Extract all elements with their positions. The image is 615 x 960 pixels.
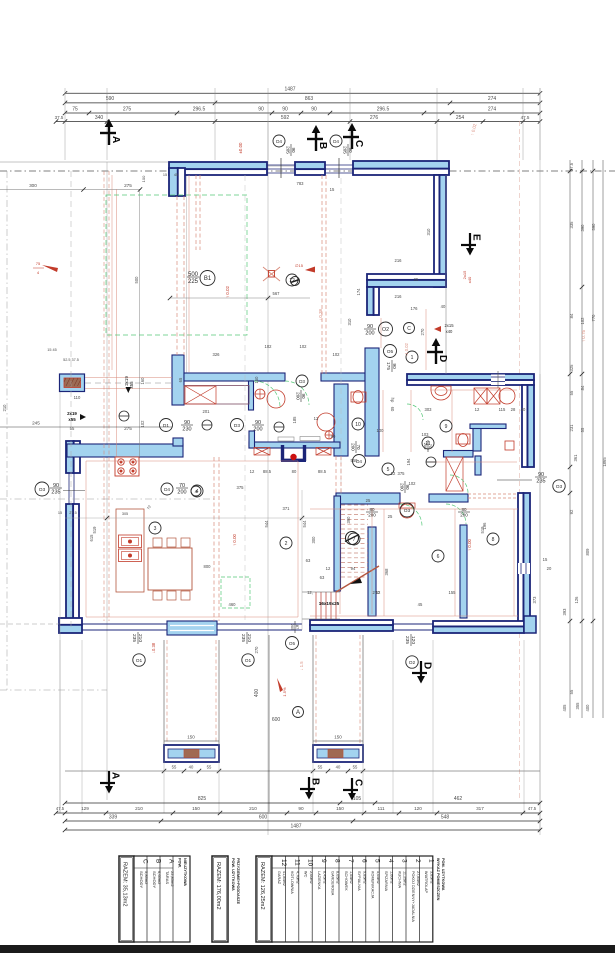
wall top-A left stub	[169, 168, 178, 196]
svg-text:84: 84	[569, 313, 574, 318]
svg-text:SCHODY: SCHODY	[152, 871, 157, 888]
door O3 bedroom circle	[400, 503, 414, 517]
threshold stripe 2	[170, 630, 214, 632]
svg-text:80: 80	[292, 469, 297, 474]
svg-text:200: 200	[399, 483, 404, 491]
svg-text:∅15: ∅15	[295, 263, 304, 268]
svg-text:6: 6	[437, 554, 440, 560]
svg-text:90: 90	[282, 106, 288, 112]
svg-text:544: 544	[302, 520, 307, 528]
svg-text:25: 25	[388, 514, 393, 519]
svg-text:9: 9	[445, 424, 448, 430]
svg-text:KOMUNIKACJA: KOMUNIKACJA	[371, 871, 375, 899]
svg-text:100: 100	[377, 428, 385, 433]
svg-text:KUCHNIA: KUCHNIA	[397, 871, 401, 889]
svg-text:12: 12	[391, 471, 396, 476]
svg-text:16x19x25: 16x19x25	[319, 601, 340, 606]
svg-text:63: 63	[320, 575, 325, 580]
svg-text:C: C	[142, 859, 149, 864]
svg-text:519: 519	[92, 526, 97, 534]
svg-text:40: 40	[521, 407, 526, 412]
svg-text:102: 102	[333, 352, 341, 357]
svg-text:↑ 0.75: ↑ 0.75	[581, 329, 586, 342]
beam C circle	[404, 323, 415, 334]
svg-text:90: 90	[348, 147, 353, 153]
svg-text:176: 176	[411, 306, 419, 311]
svg-text:809: 809	[585, 548, 590, 556]
green door arcs	[285, 381, 309, 405]
svg-text:C: C	[407, 326, 411, 332]
wall bottom right E6	[433, 626, 524, 633]
door O3 left circle	[35, 482, 49, 496]
svg-text:90: 90	[311, 106, 317, 112]
svg-text:52.5 37.5: 52.5 37.5	[63, 358, 79, 362]
grid line y162	[0, 161, 170, 163]
wall bath divider I8	[473, 424, 481, 451]
wall bedroom right E5	[523, 493, 530, 629]
svg-text:120: 120	[414, 806, 422, 811]
svg-text:A: A	[296, 710, 300, 716]
svg-text:225: 225	[188, 279, 199, 285]
vent rects above fireplace wall	[278, 437, 294, 441]
svg-text:40: 40	[441, 304, 446, 309]
svg-text:28: 28	[511, 407, 516, 412]
svg-text:235: 235	[51, 490, 60, 496]
wall interior I2	[184, 373, 285, 381]
window gap E5 right wall	[518, 563, 530, 574]
table razem-3 box	[256, 856, 272, 942]
stairs circle symbol	[345, 532, 359, 545]
svg-text:5: 5	[374, 859, 381, 863]
kitchen sink target	[255, 389, 265, 399]
left outer extension	[59, 389, 61, 633]
svg-text:25: 25	[414, 277, 419, 282]
svg-text:235: 235	[131, 634, 137, 642]
toilet bath	[456, 434, 470, 444]
svg-text:hp: hp	[390, 398, 395, 403]
svg-text:305: 305	[122, 512, 128, 516]
axis line y171 dash-dot	[0, 170, 615, 172]
svg-text:361: 361	[573, 454, 578, 462]
svg-text:12,: 12,	[307, 590, 313, 595]
svg-text:2x19: 2x19	[67, 411, 77, 416]
toilet wc	[351, 392, 366, 402]
svg-text:A: A	[110, 772, 121, 779]
door D4c circle	[353, 455, 366, 468]
label 90/235 left	[50, 483, 62, 496]
svg-text:200: 200	[368, 513, 376, 518]
threshold stripe 1	[170, 625, 214, 627]
svg-text:63: 63	[306, 558, 311, 563]
svg-text:55: 55	[70, 426, 75, 431]
svg-text:NIEUZYTKOWA: NIEUZYTKOWA	[183, 858, 187, 886]
red dashed terrace left	[213, 457, 215, 621]
svg-text:GARDEROBA: GARDEROBA	[330, 871, 334, 896]
green dashed rect living	[106, 195, 247, 335]
svg-text:235: 235	[536, 479, 545, 485]
svg-text:326: 326	[213, 352, 221, 357]
svg-text:600: 600	[272, 717, 281, 723]
wall right wing E4	[527, 385, 534, 467]
section mark A bottom	[100, 771, 121, 794]
svg-text:RAZEM: 35,13m2: RAZEM: 35,13m2	[122, 862, 128, 906]
svg-text:303: 303	[425, 407, 433, 412]
wall garage bottom stub E10	[59, 625, 82, 633]
svg-text:SCHODY: SCHODY	[139, 871, 144, 888]
svg-text:5: 5	[387, 467, 390, 473]
svg-text:400: 400	[585, 704, 590, 712]
svg-text:65: 65	[178, 377, 183, 382]
wall wc right I6	[334, 384, 348, 456]
svg-text:O3: O3	[39, 487, 46, 493]
svg-text:160: 160	[140, 377, 145, 385]
svg-text:90: 90	[291, 147, 296, 153]
red slope arrow left	[42, 265, 58, 272]
svg-text:615: 615	[89, 534, 94, 542]
svg-text:45: 45	[174, 173, 178, 177]
dining table	[148, 548, 192, 590]
stove	[115, 457, 139, 476]
beam B1 circle	[200, 271, 215, 286]
svg-text:11: 11	[425, 441, 430, 447]
section mark E right	[461, 233, 482, 256]
vent X left	[254, 448, 270, 456]
svg-text:317: 317	[476, 806, 484, 811]
room number circles	[286, 274, 298, 286]
svg-text:1: 1	[411, 355, 414, 361]
svg-text:3: 3	[154, 526, 157, 532]
svg-text:↑ 0.00: ↑ 0.00	[467, 538, 472, 551]
section mark B bottom	[300, 777, 321, 800]
svg-text:RAZEM: 176,00m2: RAZEM: 176,00m2	[215, 862, 221, 910]
wall stub up E11b	[173, 438, 183, 446]
svg-text:SPIZARNIA: SPIZARNIA	[384, 871, 388, 892]
svg-text:216: 216	[395, 294, 403, 299]
svg-text:216: 216	[395, 258, 403, 263]
svg-text:40: 40	[189, 765, 194, 770]
svg-text:88.5: 88.5	[263, 469, 272, 474]
pale red offset lines	[310, 508, 518, 510]
svg-text:1.5%: 1.5%	[282, 687, 287, 697]
svg-text:O3: O3	[556, 484, 563, 490]
extension lines	[64, 88, 66, 160]
red band from window	[85, 377, 172, 379]
svg-text:185: 185	[292, 416, 297, 424]
svg-text:3: 3	[401, 859, 408, 863]
svg-text:275: 275	[124, 183, 132, 188]
svg-text:C: C	[353, 779, 364, 786]
svg-text:12: 12	[376, 590, 381, 595]
svg-text:201: 201	[203, 409, 211, 414]
svg-text:O5: O5	[289, 641, 296, 646]
svg-text:231: 231	[569, 424, 574, 432]
svg-text:4: 4	[387, 859, 394, 863]
svg-text:20: 20	[547, 566, 552, 571]
window gap R5 porch	[491, 375, 505, 386]
svg-text:770: 770	[591, 314, 596, 322]
table razem-2 box	[212, 856, 228, 942]
svg-text:90: 90	[258, 106, 264, 112]
svg-text:O1: O1	[136, 658, 143, 664]
svg-text:275: 275	[124, 426, 132, 431]
node A circle	[293, 707, 304, 718]
wall porch top R5	[407, 374, 534, 380]
svg-text:37.5: 37.5	[55, 115, 64, 120]
svg-text:D4: D4	[276, 139, 282, 144]
svg-text:111: 111	[377, 806, 385, 811]
svg-text:276: 276	[370, 115, 379, 121]
svg-text:88.5: 88.5	[318, 469, 327, 474]
svg-text:175: 175	[385, 362, 391, 370]
svg-text:6: 6	[360, 859, 367, 863]
svg-text:D: D	[422, 662, 433, 669]
svg-text:80: 80	[369, 507, 375, 512]
svg-text:55: 55	[353, 765, 358, 770]
svg-text:11: 11	[293, 859, 300, 866]
svg-text:KOTLOWNIA: KOTLOWNIA	[290, 871, 294, 894]
svg-text:47.5: 47.5	[521, 115, 530, 120]
table nieuzytkowa	[134, 856, 190, 942]
extension lines bottom	[59, 640, 61, 813]
section mark C top	[343, 123, 364, 149]
svg-text:75: 75	[36, 261, 41, 266]
svg-text:800: 800	[204, 564, 212, 569]
svg-text:B1: B1	[204, 276, 212, 282]
svg-text:8: 8	[334, 859, 341, 863]
svg-text:2: 2	[285, 541, 288, 547]
svg-text:27.5: 27.5	[69, 511, 76, 515]
svg-text:B: B	[155, 859, 162, 863]
chimney X bedroom	[446, 457, 463, 491]
right dimension column	[569, 160, 571, 718]
window bedroom gap bottom	[393, 623, 433, 625]
svg-text:460: 460	[229, 602, 237, 607]
svg-text:274: 274	[488, 96, 497, 102]
svg-text:40: 40	[336, 765, 341, 770]
svg-text:102: 102	[265, 344, 273, 349]
svg-text:200: 200	[295, 392, 300, 400]
svg-text:↑ 0.02: ↑ 0.02	[225, 285, 230, 298]
stairwell left wall	[334, 496, 341, 591]
stairs lower flight red verticals	[316, 592, 336, 619]
bottom dimension rows	[65, 802, 540, 804]
wall top-B pier	[295, 162, 325, 169]
svg-text:PRZYZIEMIE+PODDASZE: PRZYZIEMIE+PODDASZE	[236, 858, 240, 905]
svg-text:200: 200	[365, 331, 374, 337]
svg-text:75: 75	[72, 106, 78, 112]
svg-text:B: B	[317, 142, 328, 149]
svg-text:80: 80	[331, 434, 336, 439]
door gap lines O1 terrace	[82, 623, 167, 625]
fan symbol	[263, 267, 280, 281]
svg-text:↓ 0.38: ↓ 0.38	[318, 308, 323, 321]
svg-text:205: 205	[342, 146, 347, 154]
svg-text:150: 150	[336, 806, 344, 811]
red dash vertical living left	[103, 171, 105, 621]
basin circle boiler	[499, 388, 515, 404]
svg-text:POM. UZYTKOWA: POM. UZYTKOWA	[441, 858, 445, 891]
svg-text:12: 12	[280, 859, 287, 867]
svg-text:D1: D1	[163, 423, 169, 429]
basin bedroom7	[400, 504, 414, 518]
svg-text:C: C	[353, 140, 364, 147]
svg-text:10: 10	[307, 859, 314, 867]
svg-text:274: 274	[488, 106, 497, 112]
svg-text:210: 210	[249, 806, 257, 811]
svg-text:590: 590	[591, 223, 596, 231]
svg-text:196: 196	[482, 522, 487, 530]
wall fireplace row I7	[249, 442, 340, 448]
svg-text:205: 205	[285, 146, 290, 154]
svg-text:270: 270	[254, 646, 259, 654]
window top 2	[325, 164, 353, 166]
svg-text:7: 7	[353, 537, 356, 543]
door O3 right circle	[553, 480, 565, 492]
svg-text:1: 1	[427, 859, 434, 863]
svg-text:174: 174	[356, 288, 361, 296]
svg-text:235: 235	[240, 634, 246, 642]
svg-text:25: 25	[366, 498, 371, 503]
section mark B top	[307, 125, 328, 151]
svg-text:x40: x40	[446, 329, 453, 334]
svg-text:15: 15	[330, 187, 335, 192]
svg-text:368: 368	[384, 568, 389, 576]
svg-text:375: 375	[398, 471, 406, 476]
svg-text:12: 12	[326, 566, 331, 571]
svg-text:462: 462	[454, 796, 463, 802]
svg-text:200: 200	[350, 443, 355, 451]
fireplace	[281, 445, 306, 461]
svg-text:55: 55	[172, 765, 177, 770]
circle 4 kitchen	[191, 486, 201, 496]
door O5b circle	[286, 637, 299, 650]
vent X 2	[487, 388, 500, 404]
svg-text:4: 4	[196, 489, 199, 495]
door O1b circle	[242, 654, 254, 666]
red dashes pier B flue	[321, 175, 323, 374]
svg-text:863: 863	[305, 96, 314, 102]
svg-text:373: 373	[532, 596, 537, 604]
wall kitchen top E11	[67, 444, 183, 457]
wall top-C	[353, 161, 449, 169]
wall bath I8b	[444, 451, 474, 458]
svg-text:A: A	[168, 859, 175, 864]
svg-text:235: 235	[404, 636, 410, 644]
red arrow near fan	[305, 267, 315, 273]
svg-text:O3: O3	[404, 508, 411, 514]
svg-text:150: 150	[334, 735, 342, 740]
svg-text:600: 600	[259, 815, 268, 821]
svg-text:70: 70	[356, 444, 361, 450]
door D3b circle	[296, 375, 308, 387]
wall bedroom divider I12	[460, 525, 467, 618]
svg-text:x55: x55	[68, 417, 76, 422]
green dashed closet	[221, 577, 250, 608]
svg-text:200: 200	[253, 427, 262, 433]
svg-text:500: 500	[134, 276, 139, 284]
wall interior I4 long vertical	[365, 348, 379, 456]
svg-text:↑ 0.00: ↑ 0.00	[232, 533, 237, 546]
svg-text:102: 102	[300, 344, 308, 349]
svg-text:355: 355	[575, 702, 580, 710]
wall bedroom top I9b	[429, 494, 468, 502]
svg-text:254: 254	[456, 115, 465, 121]
svg-text:390: 390	[346, 516, 351, 524]
cabinet row under I2	[184, 386, 249, 405]
svg-text:O2: O2	[409, 660, 416, 666]
svg-text:POKOJ DZIENNY+JADALNIA: POKOJ DZIENNY+JADALNIA	[411, 871, 415, 922]
svg-text:340: 340	[95, 115, 104, 121]
svg-text:150: 150	[192, 806, 200, 811]
door O1a circle	[133, 654, 145, 666]
wall bottom left E7	[310, 625, 393, 631]
svg-text:155: 155	[449, 590, 457, 595]
svg-text:296.5: 296.5	[377, 106, 390, 112]
table uzytkowa	[272, 856, 433, 942]
svg-text:8: 8	[492, 537, 495, 543]
wall zigzag horiz R2	[367, 280, 446, 287]
svg-text:1487: 1487	[284, 87, 295, 93]
svg-text:200: 200	[177, 490, 186, 496]
door O5 circle	[384, 345, 397, 358]
svg-text:55: 55	[318, 765, 323, 770]
svg-text:55: 55	[207, 765, 212, 770]
svg-text:371: 371	[283, 506, 291, 511]
svg-text:7: 7	[347, 859, 354, 863]
svg-text:2x15: 2x15	[444, 323, 454, 328]
svg-text:1487: 1487	[290, 824, 301, 830]
svg-text:47.5: 47.5	[56, 806, 65, 811]
svg-text:310: 310	[426, 228, 431, 236]
wall stair right I11	[368, 527, 376, 616]
svg-text:POW.: POW.	[178, 858, 182, 868]
wall bath stub I8c	[475, 456, 481, 475]
svg-text:230: 230	[182, 427, 191, 433]
svg-text:245: 245	[32, 421, 40, 426]
wall garage left E8	[66, 504, 73, 627]
top dimension rows	[65, 92, 540, 94]
stairs treads upper (dashed)	[341, 505, 368, 577]
red dash door O3 right	[468, 493, 518, 495]
svg-text:TARAS: TARAS	[165, 871, 170, 884]
svg-text:300: 300	[311, 536, 316, 544]
svg-text:9: 9	[320, 859, 327, 863]
svg-text:5,83m2: 5,83m2	[144, 871, 149, 885]
svg-text:WIATROLAP: WIATROLAP	[424, 871, 428, 894]
door D1 circle	[160, 419, 173, 432]
svg-text:A: A	[110, 136, 121, 143]
svg-text:275: 275	[123, 106, 132, 112]
door-window labels	[273, 135, 285, 147]
shower square	[505, 441, 514, 450]
svg-text:110: 110	[74, 395, 81, 400]
basin under window bath	[431, 386, 451, 400]
bottom black bar	[0, 945, 615, 953]
svg-text:6,65m2: 6,65m2	[157, 871, 162, 885]
svg-text:↓ 1.5: ↓ 1.5	[299, 661, 304, 671]
svg-text:x40: x40	[467, 276, 472, 283]
svg-text:375: 375	[237, 485, 245, 490]
wall bedroom top I9a	[336, 493, 400, 504]
stairs diagonal arrow	[336, 566, 379, 592]
svg-text:↑1 0.02: ↑1 0.02	[404, 342, 409, 356]
svg-text:15: 15	[543, 557, 548, 562]
svg-text:SCHOWEK: SCHOWEK	[344, 871, 348, 891]
svg-text:310: 310	[347, 318, 352, 326]
svg-text:15: 15	[58, 511, 62, 515]
svg-text:194: 194	[406, 458, 411, 466]
svg-text:10: 10	[355, 422, 361, 428]
